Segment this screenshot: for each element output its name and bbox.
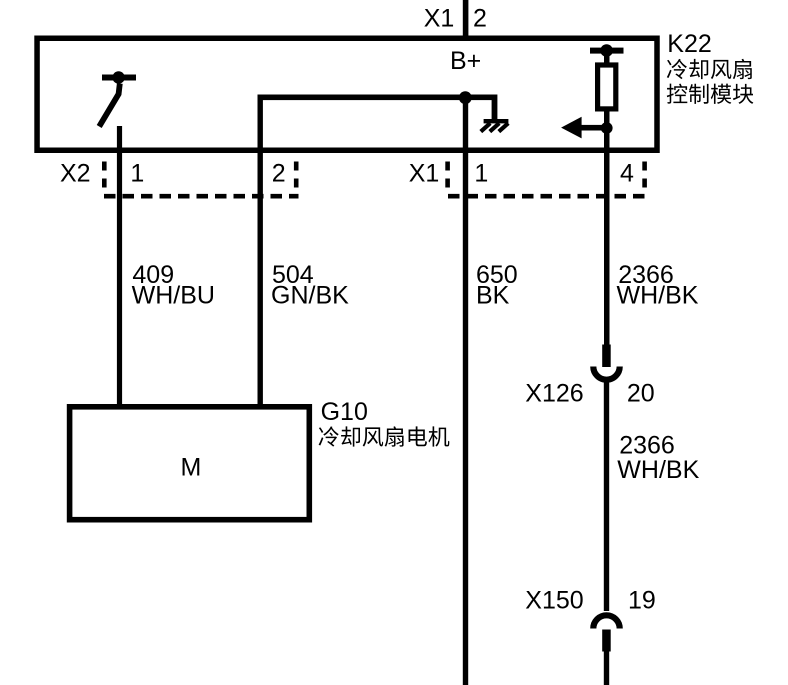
ground hatch 2 [490,123,499,131]
wire 650 BK (B+ node down) [463,97,468,685]
svg-text:19: 19 [628,587,656,615]
svg-text:WH/BU: WH/BU [132,282,215,310]
ground hatch 3 [499,123,508,131]
switch contact dot [112,71,124,83]
svg-text:2: 2 [272,160,286,188]
wire X2 pin1 to motor [117,126,122,405]
svg-text:B+: B+ [450,47,481,75]
switch contact bar [102,75,136,81]
ground hatch 1 [481,123,490,131]
svg-text:2: 2 [473,5,487,33]
svg-text:M: M [181,453,202,481]
wire 2366 below X150 [604,650,609,685]
label K22 chinese line2 控制模块 [667,84,754,104]
svg-text:G10: G10 [321,398,368,426]
X2 dashed outline bottom [104,194,299,199]
svg-text:1: 1 [130,160,144,188]
X150 socket arc [593,615,619,628]
junction dot B+ node [459,91,472,104]
svg-text:GN/BK: GN/BK [271,282,349,310]
svg-text:WH/BK: WH/BK [617,456,699,484]
ground symbol bar [484,119,509,123]
svg-text:1: 1 [474,160,488,188]
svg-text:X1: X1 [424,5,455,33]
svg-text:BK: BK [476,282,510,310]
resistor top bar [590,48,624,54]
K22 control module box [37,38,657,150]
resistor bottom stub [604,108,610,128]
label G10 chinese 冷却风扇电机 [319,426,450,446]
svg-text:X150: X150 [525,587,583,615]
svg-text:X126: X126 [525,380,583,408]
svg-text:WH/BK: WH/BK [617,282,699,310]
resistor R body [598,65,616,109]
wire 2366 between X126 and X150 [604,378,609,611]
svg-text:20: 20 [627,380,655,408]
wire X2 pin2 riser to motor [258,95,263,405]
wire internal horizontal (pin2 to B+ node) [258,95,496,101]
label K22 chinese line1 冷却风扇 [667,59,752,79]
wire stub to ground [492,95,498,121]
X2 dashed tick left [102,162,107,189]
resistor top dot [600,44,613,57]
X1 dashed tick right [642,162,647,189]
arrow shaft [581,125,607,131]
junction dot output [601,122,613,134]
X126 male pin [602,345,611,368]
wire B+ feed from top [463,0,469,41]
motor G10 box [70,407,310,520]
svg-text:X2: X2 [60,160,91,188]
svg-text:K22: K22 [667,30,711,58]
X1 dashed outline bottom [448,194,648,199]
svg-text:4: 4 [620,160,634,188]
arrow head [561,117,582,139]
svg-text:X1: X1 [409,160,440,188]
X2 dashed tick right [294,162,299,189]
X1 dashed tick left [445,162,450,189]
X126 socket arc [593,367,619,380]
X150 male pin [602,630,611,652]
switch blade [99,84,120,127]
resistor top stub [604,53,610,65]
wire 2366 upper (pin4 down) [604,128,610,345]
